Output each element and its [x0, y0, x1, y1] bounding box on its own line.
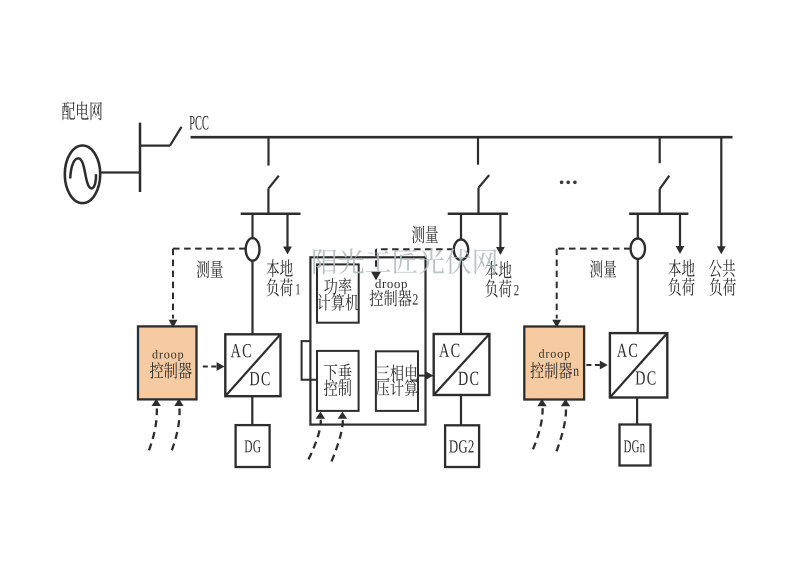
- CT3 measurement transformer: [631, 239, 645, 259]
- label 配电网: [62, 101, 102, 120]
- wire source to busbar: [100, 171, 140, 173]
- droop controller U2 box: [138, 326, 197, 399]
- label 测量 1: [197, 261, 223, 279]
- feedback dashed arrow 2b: [332, 420, 343, 462]
- label PCC: [189, 116, 208, 130]
- CT1 measurement transformer: [246, 238, 260, 261]
- label 控制器 U2: [150, 362, 192, 379]
- breaker S3 blade: [660, 176, 670, 189]
- breaker S2 lower wire: [477, 188, 479, 215]
- local load 2 arrow: [499, 214, 501, 248]
- arrow voltagecalc to converter U4: [418, 375, 427, 377]
- local load 1 arrow: [286, 214, 288, 247]
- label AC U1: [231, 344, 251, 357]
- wire CT3 to converter U5: [637, 259, 639, 333]
- label droop U2: [152, 350, 183, 361]
- label droop Un: [539, 349, 570, 360]
- watermark 阳光工匠光伏网: [313, 248, 496, 274]
- left port rectangle: [302, 341, 317, 380]
- label 公共负荷: [709, 259, 735, 277]
- label 本地负荷1: [266, 259, 292, 277]
- label DC U4: [458, 372, 478, 385]
- measure dashed wire CT2 to controller2: [376, 248, 454, 250]
- droop controller Un box: [524, 327, 584, 400]
- local load n arrow: [679, 214, 681, 247]
- ellipsis dots: [560, 181, 577, 185]
- label 下垂控制: [324, 364, 351, 381]
- label 三相电压计算: [376, 364, 418, 381]
- wire U5 to DGn: [636, 398, 638, 425]
- DGn box: [620, 425, 651, 466]
- sine wave inside source: [70, 158, 96, 188]
- wire bus2 to CT2: [460, 214, 462, 240]
- local bus 3: [629, 213, 688, 216]
- wire bus1 to CT1: [251, 214, 253, 239]
- converter U1 diagonal: [225, 334, 280, 396]
- label 测量 3: [590, 260, 616, 278]
- label 本地负荷2: [485, 261, 511, 279]
- label 本地负荷 n: [668, 259, 694, 277]
- public load line: [720, 136, 722, 247]
- dashed arrow droop to converter U1: [203, 366, 218, 368]
- label 功率计算机: [324, 278, 351, 295]
- label AC U4: [439, 344, 459, 357]
- local bus 2: [448, 213, 508, 216]
- label DG2: [449, 440, 473, 452]
- measure dashed wire CT1 to droop U2: [173, 248, 246, 250]
- branch2 drop wire: [477, 136, 479, 165]
- feedback dashed arrow 2a: [309, 420, 321, 460]
- droop control box: [317, 351, 359, 411]
- branch3 drop wire: [659, 136, 661, 163]
- DG1 box: [236, 425, 270, 467]
- wire CT2 to converter U4: [460, 260, 462, 334]
- power computer box: [317, 264, 359, 322]
- label droop controller2: [375, 279, 407, 291]
- dashed arrow droop Un to converter U5: [586, 364, 600, 366]
- wire U1 to DG1: [251, 396, 253, 425]
- breaker S1 lower wire: [267, 189, 269, 215]
- wire CT1 to converter U1: [251, 261, 253, 335]
- converter U4 AC/DC box: [434, 334, 490, 395]
- three-phase voltage calc box: [376, 351, 418, 411]
- wire bus3 to CT3: [637, 214, 639, 239]
- converter U4 diagonal: [434, 334, 490, 395]
- label DGn: [624, 440, 645, 452]
- controller2 container box: [310, 257, 425, 424]
- breaker S0 horizontal: [139, 145, 170, 147]
- label AC U5: [617, 344, 637, 357]
- label DC U5: [636, 371, 656, 384]
- DG2 box: [445, 425, 479, 467]
- breaker S1 blade: [268, 176, 278, 189]
- label 测量 2: [412, 226, 438, 244]
- branch1 drop wire: [267, 136, 269, 166]
- label DG1: [245, 440, 261, 452]
- AC grid source symbol: [65, 146, 100, 204]
- measure dashed wire CT3 to droop Un: [557, 248, 631, 250]
- label DC U1: [250, 372, 270, 385]
- feedback dashed arrow 1b: [172, 409, 180, 451]
- CT2 measurement transformer: [454, 240, 468, 261]
- breaker S0 blade: [170, 127, 182, 146]
- local bus 1: [241, 213, 301, 216]
- feedback dashed arrow na: [533, 408, 543, 449]
- busbar vertical: [139, 123, 142, 192]
- main bus PCC: [191, 136, 733, 139]
- breaker S2 blade: [479, 175, 490, 188]
- converter U5 diagonal: [610, 333, 667, 397]
- converter U1 AC/DC box: [225, 334, 280, 396]
- breaker S3 lower wire: [659, 189, 661, 215]
- feedback dashed arrow nb: [557, 408, 567, 451]
- wire U4 to DG2: [460, 395, 462, 426]
- converter U5 AC/DC box: [610, 333, 667, 397]
- feedback dashed arrow 1a: [149, 409, 157, 451]
